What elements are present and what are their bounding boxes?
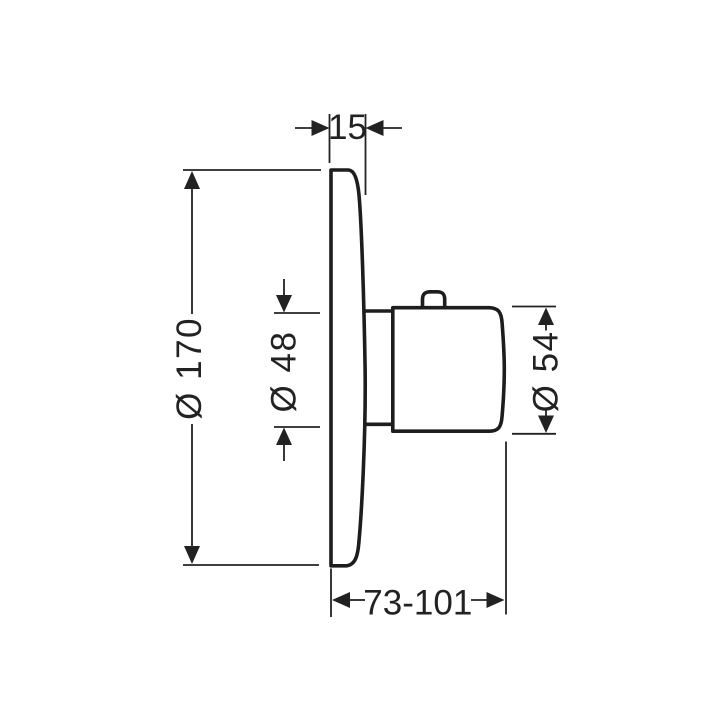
- svg-text:73-101: 73-101: [363, 584, 472, 623]
- dim 73-101: left extension line: [330, 569, 332, 618]
- dim 54: top extension line: [512, 306, 556, 308]
- dim 54: top arrow: [538, 308, 554, 326]
- escutcheon plate (side view outline): [331, 170, 365, 566]
- knob top tab (safety stop button): [423, 292, 445, 308]
- dim 73-101: left arrow: [332, 592, 350, 608]
- dim 48: top arrow tail: [283, 279, 285, 297]
- dim 54: bottom arrow: [538, 416, 554, 434]
- svg-text:15: 15: [328, 108, 367, 147]
- dim 73-101: right extension line: [505, 442, 507, 615]
- svg-text:Ø 54: Ø 54: [527, 330, 566, 412]
- dim 15: left extension line: [329, 114, 331, 163]
- dim 73-101: right tail line: [471, 599, 488, 601]
- knob body: [393, 308, 505, 432]
- dim 170: bottom arrow: [184, 546, 200, 564]
- dim 15: right extension line: [365, 114, 367, 195]
- dim 48: bottom extension line: [274, 426, 320, 428]
- dim 170: top arrow: [184, 171, 200, 189]
- dim 48: bottom arrow: [276, 428, 292, 446]
- dim 73-101: right arrow: [487, 592, 505, 608]
- dim 170: bottom extension line: [183, 564, 319, 566]
- dim 54: bottom extension line: [512, 433, 556, 435]
- dim 48: bottom arrow tail: [283, 444, 285, 461]
- dim 54: top arrow tail stub: [545, 324, 547, 331]
- dim 170: lower line segment: [191, 424, 193, 548]
- svg-text:Ø 170: Ø 170: [170, 317, 209, 420]
- dim 170: upper line segment: [191, 188, 193, 314]
- dim 73-101: left tail line: [350, 599, 365, 601]
- valve neck bottom line: [364, 422, 394, 426]
- dim 15: right tail line: [383, 127, 402, 129]
- dim 48: top extension line: [274, 312, 320, 314]
- dim 15: left arrow: [312, 120, 330, 136]
- dim 54: bottom arrow tail stub: [545, 411, 547, 418]
- dim 48: top arrow: [276, 295, 292, 313]
- dim 15: left tail line: [295, 127, 312, 129]
- dim 15: right arrow: [366, 120, 384, 136]
- svg-text:Ø 48: Ø 48: [265, 331, 304, 413]
- dim 170: top extension line: [183, 169, 321, 171]
- valve neck top line: [364, 309, 394, 313]
